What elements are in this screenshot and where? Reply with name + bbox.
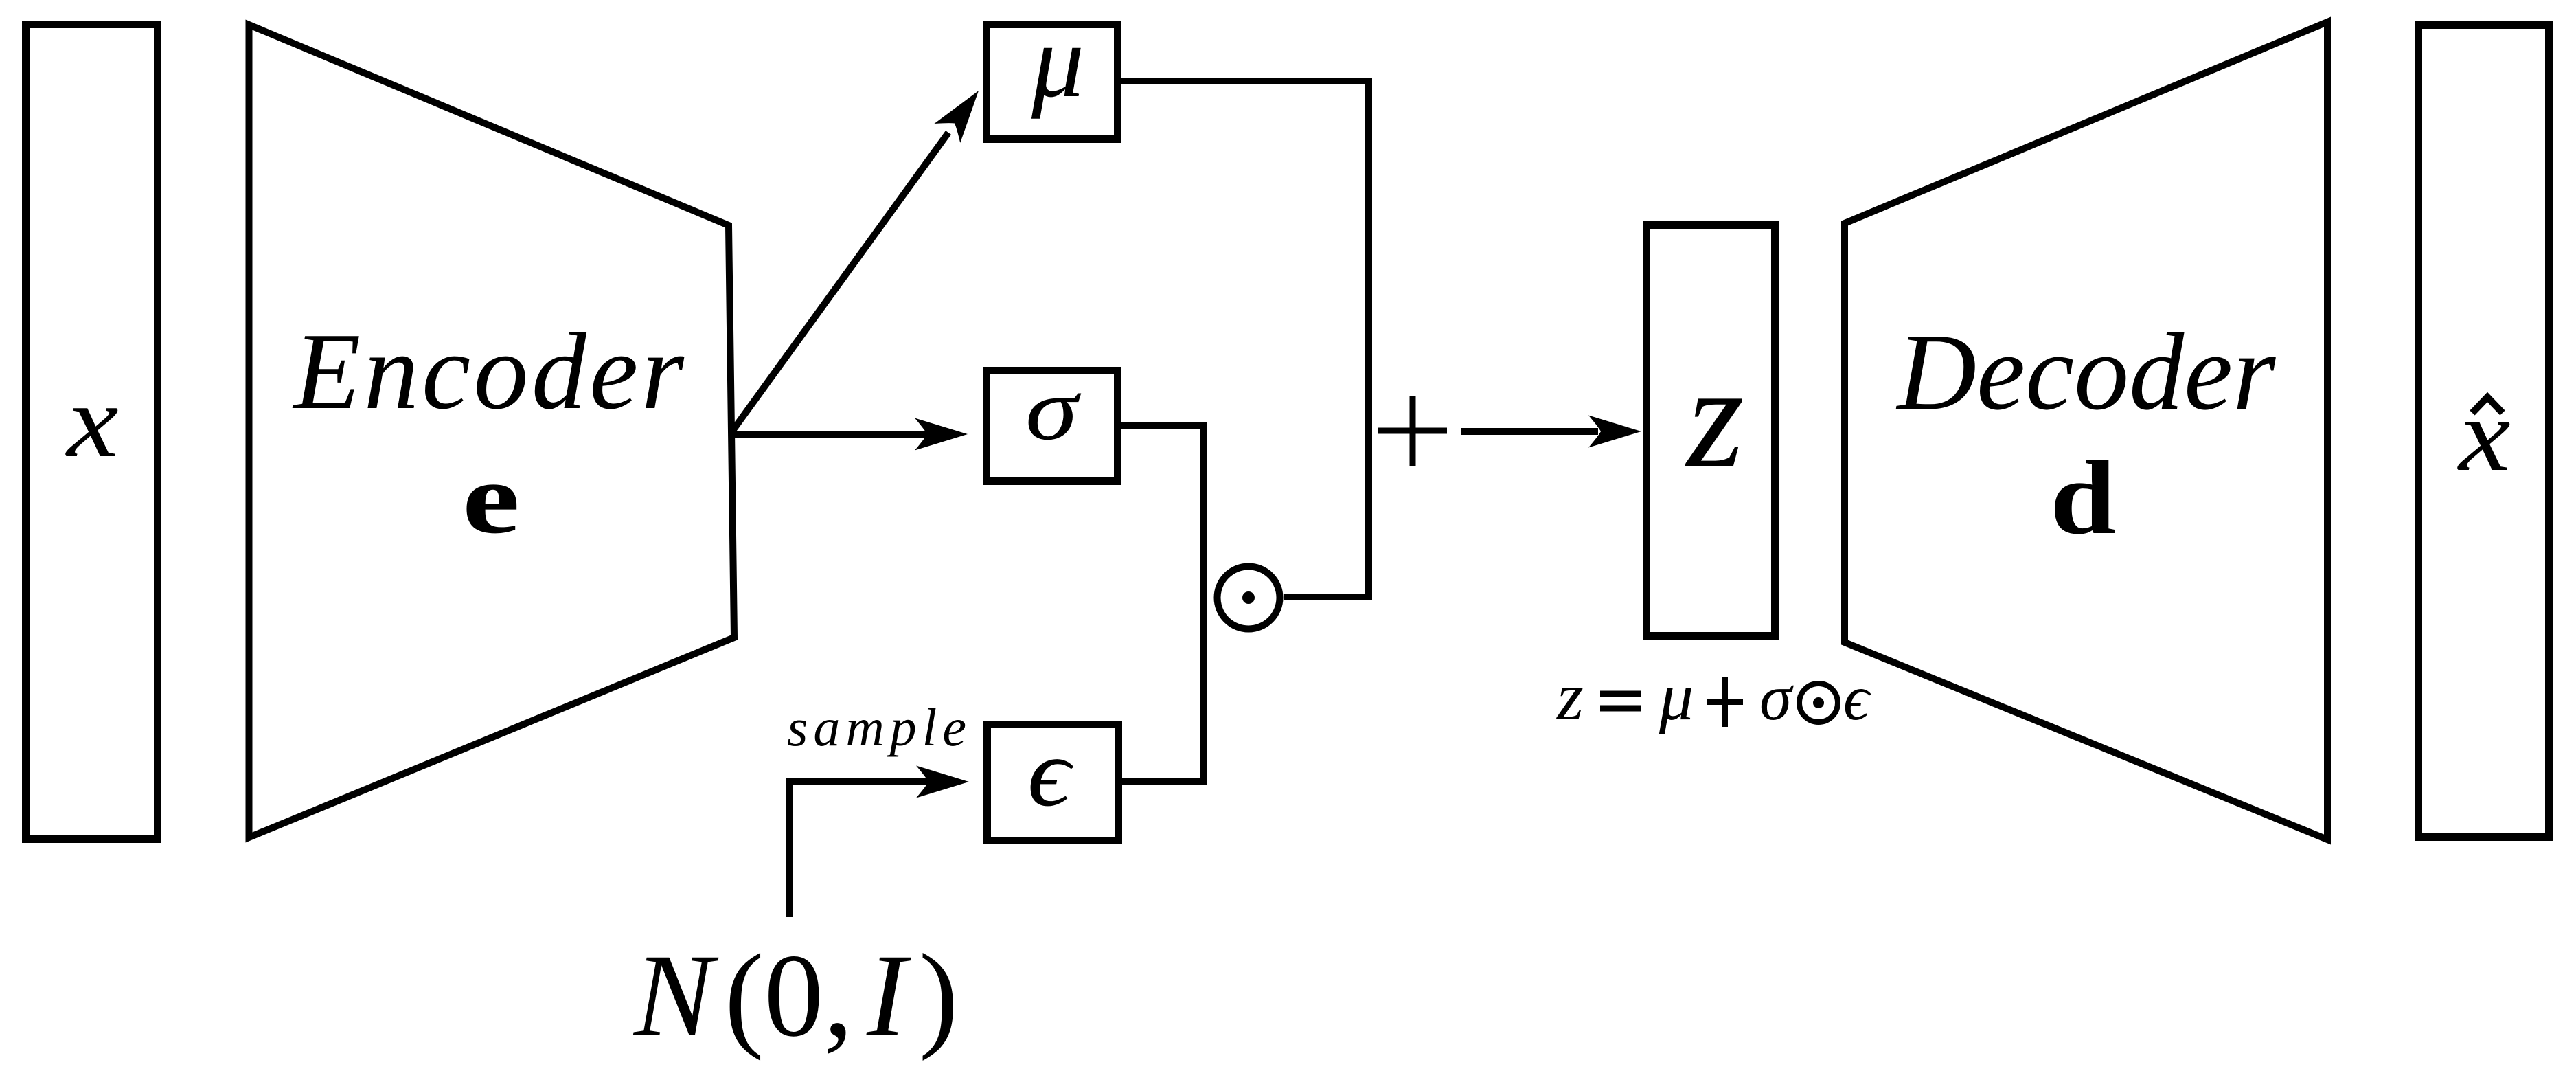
arrow encoder to sigma	[732, 418, 968, 451]
svg-text:sample: sample	[787, 697, 972, 757]
svg-text:μ: μ	[1659, 658, 1694, 734]
svg-text:d: d	[2050, 439, 2116, 556]
svg-text:μ: μ	[1031, 3, 1084, 120]
decoder trapezoid	[1845, 22, 2327, 839]
svg-text:z: z	[1555, 658, 1584, 734]
odot operator (element-wise product)	[1218, 567, 1280, 629]
formula z = mu + sigma odot epsilon	[1555, 658, 1871, 734]
svg-text:N: N	[632, 930, 719, 1061]
svg-text:z: z	[1685, 335, 1744, 499]
svg-text:): )	[919, 930, 959, 1061]
svg-text:Decoder: Decoder	[1896, 311, 2277, 433]
svg-text:x: x	[2457, 377, 2510, 493]
svg-text:ϵ: ϵ	[1027, 719, 1074, 827]
svg-text:(0,: (0,	[725, 930, 853, 1061]
encoder trapezoid	[249, 25, 735, 837]
svg-text:Encoder: Encoder	[293, 310, 687, 432]
svg-text:e: e	[462, 442, 520, 555]
input vector x (tall rectangle)	[26, 25, 158, 839]
label x-hat	[2457, 377, 2510, 493]
arrow encoder to mu	[732, 81, 992, 431]
plus symbol	[1378, 396, 1447, 466]
sigma box	[987, 371, 1118, 482]
wire mu to plus junction	[1121, 81, 1369, 597]
sample arrow from N(0,I) to epsilon	[789, 766, 969, 918]
epsilon box	[988, 725, 1119, 841]
svg-text:I: I	[866, 930, 911, 1061]
wire sigma down to epsilon wire	[1121, 426, 1204, 781]
svg-text:σ: σ	[1759, 661, 1794, 734]
mu box	[987, 25, 1118, 139]
arrow plus to z	[1461, 416, 1641, 448]
latent vector z box	[1647, 225, 1775, 636]
output vector x-hat (tall rectangle)	[2419, 25, 2549, 837]
svg-text:x: x	[65, 363, 118, 479]
svg-text:σ: σ	[1025, 360, 1081, 458]
svg-text:ϵ: ϵ	[1843, 663, 1871, 734]
